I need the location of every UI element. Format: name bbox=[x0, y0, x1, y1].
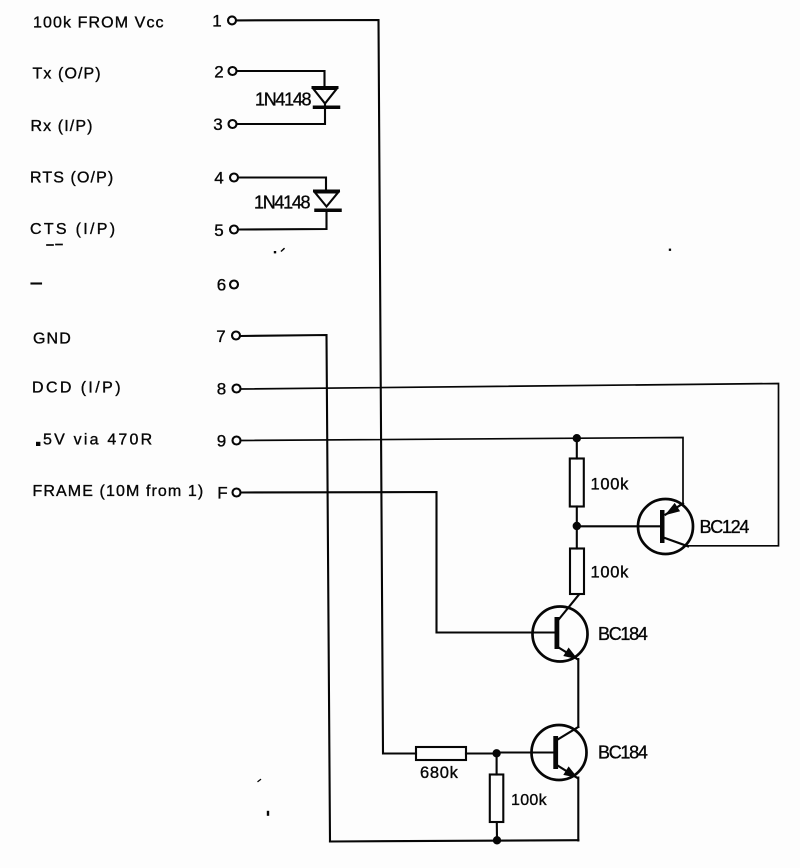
svg-text:4: 4 bbox=[214, 169, 223, 188]
wire Q2 emitter down to Q3 collector bbox=[577, 659, 579, 727]
diode D1 1N4148 anode bar bbox=[313, 86, 337, 89]
wire GND from pin 7 down left side bbox=[241, 335, 331, 842]
transistor Q3 BC184 (NPN, lower) body bbox=[532, 725, 587, 780]
diode D1 triangle bbox=[314, 89, 337, 104]
Q3 collector lead bbox=[556, 727, 578, 741]
svg-text:BC184: BC184 bbox=[598, 624, 648, 644]
svg-text:Tx (O/P): Tx (O/P) bbox=[33, 66, 102, 83]
wire pin 1 to 680k resistor (vertical trunk) bbox=[237, 20, 417, 754]
pin 2 terminal bbox=[229, 67, 237, 75]
wire FRAME pin F to BC184 base bbox=[241, 492, 555, 633]
svg-text:BC184: BC184 bbox=[598, 743, 648, 763]
Q3 base bar bbox=[553, 736, 558, 769]
junction node at Q3 base / R4 top bbox=[492, 749, 500, 757]
pin 1 terminal bbox=[228, 16, 236, 24]
svg-text:100k: 100k bbox=[511, 792, 548, 809]
Q2 base bar bbox=[555, 617, 560, 649]
svg-text:2: 2 bbox=[214, 63, 223, 82]
resistor R1 100k (upper) bbox=[576, 438, 578, 458]
resistor R3 680k (horizontal) bbox=[416, 747, 466, 760]
pin F terminal bbox=[233, 489, 241, 497]
transistor Q1 BC124 (PNP) body bbox=[638, 499, 693, 554]
svg-text:BC124: BC124 bbox=[700, 517, 750, 537]
net label: pin 6 dash bbox=[32, 282, 42, 284]
Q3 emitter lead bbox=[556, 765, 578, 779]
diode D1 apex stub bbox=[324, 104, 326, 108]
wire Q3 emitter down to ground rail bbox=[577, 778, 579, 841]
pin 9 terminal bbox=[233, 437, 241, 445]
svg-text:FRAME (10M from 1): FRAME (10M from 1) bbox=[33, 483, 205, 500]
svg-text:1N4148: 1N4148 bbox=[254, 193, 311, 213]
svg-text:680k: 680k bbox=[420, 764, 459, 782]
svg-text:100k FROM Vcc: 100k FROM Vcc bbox=[33, 15, 165, 32]
pin 7 terminal bbox=[232, 332, 240, 340]
scan speckle marks bbox=[274, 251, 276, 253]
diode D2 1N4148 anode bar bbox=[315, 190, 339, 193]
Q2 emitter arrow (NPN, pointing out) bbox=[563, 648, 578, 660]
diode D2 triangle bbox=[315, 193, 338, 207]
junction node at ground rail bbox=[493, 836, 501, 844]
svg-text:1N4148: 1N4148 bbox=[255, 90, 312, 110]
svg-text:9: 9 bbox=[217, 432, 226, 451]
resistor R2 100k (middle) bbox=[576, 526, 578, 549]
underline dashes below CTS bbox=[47, 244, 53, 246]
svg-text:Rx (I/P): Rx (I/P) bbox=[31, 118, 94, 135]
junction node at R1 top bbox=[573, 434, 581, 442]
junction node between R1 and R2 bbox=[573, 522, 581, 530]
svg-text:GND: GND bbox=[33, 331, 72, 348]
svg-text:7: 7 bbox=[216, 327, 225, 346]
pin 6 terminal bbox=[230, 281, 238, 289]
diode D1 cathode bar bbox=[315, 105, 339, 109]
svg-text:6: 6 bbox=[217, 276, 226, 295]
wire pin 3 to D1 cathode bbox=[237, 108, 325, 124]
svg-text:5: 5 bbox=[214, 221, 223, 240]
transistor Q2 BC184 (NPN, upper) body bbox=[533, 607, 588, 662]
Q1 emitter lead (top) bbox=[666, 504, 684, 515]
pin 8 terminal bbox=[233, 385, 241, 393]
pin 4 terminal bbox=[230, 174, 238, 182]
diode D2 cathode bar bbox=[316, 208, 340, 212]
wire +5V pin 9 to R1 top and BC124 emitter bbox=[241, 438, 683, 505]
wire ground rail along bottom bbox=[330, 840, 578, 841]
Q1 emitter arrow (PNP, pointing at base) bbox=[665, 503, 680, 515]
resistor R4 100k (lower) bbox=[496, 753, 498, 774]
Q1 base bar bbox=[660, 510, 665, 543]
wire pin 2 to D1 anode bbox=[237, 71, 325, 87]
Q3 emitter arrow (NPN, pointing out) bbox=[563, 766, 578, 778]
wire DCD pin 8 to BC124 collector (right loop) bbox=[241, 384, 779, 546]
svg-text:100k: 100k bbox=[591, 564, 630, 582]
svg-text:DCD (I/P): DCD (I/P) bbox=[32, 380, 123, 397]
Q2 collector lead to R2 bottom bbox=[557, 595, 579, 622]
pin 3 terminal bbox=[229, 120, 237, 128]
net label: +5V via 470R bbox=[36, 442, 40, 446]
Q1 collector lead (bottom) bbox=[664, 538, 689, 547]
svg-text:F: F bbox=[217, 484, 227, 503]
svg-text:5V via 470R: 5V via 470R bbox=[43, 432, 154, 449]
svg-text:8: 8 bbox=[217, 380, 226, 399]
svg-text:CTS (I/P): CTS (I/P) bbox=[30, 221, 117, 238]
wire pin 5 to D2 cathode bbox=[239, 211, 327, 230]
svg-text:1: 1 bbox=[212, 12, 221, 31]
wire Q1 base to R1/R2 junction bbox=[577, 525, 660, 527]
svg-text:3: 3 bbox=[213, 115, 222, 134]
wire pin 4 to D2 anode bbox=[239, 178, 327, 191]
svg-text:RTS (O/P): RTS (O/P) bbox=[30, 170, 114, 187]
wire node to Q3 base bbox=[497, 751, 554, 753]
Q2 emitter lead bbox=[557, 647, 578, 660]
svg-text:100k: 100k bbox=[591, 475, 630, 493]
pin 5 terminal bbox=[230, 226, 238, 234]
